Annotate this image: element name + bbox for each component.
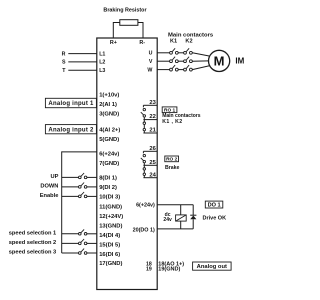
label box: Analog input 2 [45,125,96,134]
terminal 22 stub [143,119,157,121]
svg-text:24v: 24v [163,217,172,223]
svg-text:14(DI 4): 14(DI 4) [99,233,120,239]
svg-text:25: 25 [149,160,156,166]
relay contact 22-21 [143,120,145,122]
wire T to L3 [68,69,97,71]
svg-text:26: 26 [149,146,156,152]
svg-text:Analog out: Analog out [197,264,227,270]
svg-text:6(+24v): 6(+24v) [99,151,119,157]
svg-text:W: W [147,67,152,73]
svg-text:R-: R- [139,40,145,46]
svg-text:15(DI 5): 15(DI 5) [99,242,120,248]
svg-text:3(GND): 3(GND) [99,112,119,118]
svg-text:RO 2: RO 2 [166,157,178,163]
drive unit enclosure box [97,38,157,290]
wire relay coil branch top [180,205,182,215]
wire K2 pole 1 to motor [192,53,210,57]
svg-text:Braking Resistor: Braking Resistor [103,8,147,14]
diode D1 (flyback) [190,214,196,216]
wire K1 to K2 pole 2 [178,60,183,62]
svg-text:IM: IM [235,56,244,65]
svg-text:24: 24 [149,172,156,178]
svg-text:S: S [62,60,66,66]
wire diode branch bottom [192,219,194,229]
wire U to K1 pole [157,52,170,54]
contactor K2 pole 3 [184,68,187,71]
svg-text:19: 19 [146,266,152,272]
svg-text:L3: L3 [99,68,105,74]
wire K1 to K2 pole 3 [178,69,183,71]
svg-text:M: M [214,54,225,69]
wire braking resistor right lead to R- terminal [138,23,143,39]
wire +24V vertical rail [61,151,63,253]
relay contact 25-24 [143,165,145,167]
svg-text:R: R [62,51,66,57]
relay contact 26-25 [142,151,144,153]
wire DO1 return to terminal 20 [157,228,193,230]
svg-text:Enable: Enable [40,193,59,199]
svg-text:11(GND): 11(GND) [99,204,122,210]
wire K1 to K2 pole 1 [178,52,183,54]
label box: DO 1 [205,201,223,208]
wire W to K1 pole [157,69,170,71]
switch Enable to 10(DI 3) [62,195,79,197]
svg-text:19(GND): 19(GND) [158,266,180,272]
svg-text:Drive OK: Drive OK [203,216,227,222]
motor M (induction motor) [209,50,230,71]
label box: Analog out [193,262,232,270]
switch speed selection 3 to 16(DI 6) [62,252,79,254]
svg-text:Analog input 1: Analog input 1 [48,101,94,107]
svg-text:DO 1: DO 1 [208,203,221,209]
wire braking resistor left lead to R+ terminal [113,23,120,39]
contactor K2 pole 1 [184,51,187,54]
switch speed selection 1 to 14(DI 4) [62,233,79,235]
wire relay coil branch bottom [180,221,182,229]
svg-text:R+: R+ [110,40,117,46]
switch DOWN to 9(DI 2) [62,186,79,188]
wire diode branch top [192,205,194,216]
svg-text:10(DI 3): 10(DI 3) [99,194,120,200]
svg-text:22: 22 [149,114,155,120]
relay coil (dc 24v) [176,215,187,221]
svg-text:K1 , K2: K1 , K2 [162,119,182,125]
svg-text:8(DI 1): 8(DI 1) [99,175,117,181]
svg-text:12(+24V): 12(+24V) [99,214,123,220]
terminal 25 stub [143,164,157,166]
svg-text:2(AI 1): 2(AI 1) [99,102,117,108]
switch UP to 8(DI 1) [62,176,79,178]
contactor K1 pole 1 [170,51,173,54]
wire K2 pole 3 to motor [192,66,210,70]
svg-text:16(DI 6): 16(DI 6) [99,252,120,258]
svg-text:5(GND): 5(GND) [99,137,119,143]
wire +24V rail from terminal 6 [62,151,97,153]
svg-text:K1: K1 [170,39,177,45]
terminal 26 stub [143,150,157,152]
contactor K1 pole 3 [170,68,173,71]
terminal 23 stub [143,104,157,106]
svg-text:23: 23 [149,100,156,106]
wire R to L1 [68,53,97,55]
label box: RO 1 [162,107,177,113]
switch speed selection 2 to 15(DI 5) [62,242,79,244]
svg-text:V: V [149,59,153,65]
svg-text:Analog input 2: Analog input 2 [48,127,94,133]
contactor K2 pole 2 [184,60,187,63]
wire K2 pole 2 to motor [192,60,208,62]
wire +24v to DO1 load top [157,204,193,206]
terminal 24 stub [143,177,157,179]
svg-text:speed selection 3: speed selection 3 [9,249,56,255]
svg-text:Brake: Brake [165,165,180,171]
svg-text:K2: K2 [185,39,192,45]
svg-text:4(AI 2+): 4(AI 2+) [99,128,120,134]
svg-text:13(GND): 13(GND) [99,223,122,229]
svg-text:speed selection 2: speed selection 2 [9,240,56,246]
svg-text:17(GND): 17(GND) [99,261,122,267]
svg-text:7(GND): 7(GND) [99,161,119,167]
svg-text:speed selection 1: speed selection 1 [9,230,56,236]
svg-text:L1: L1 [99,51,105,57]
label box: Analog input 1 [45,98,96,107]
wire S to L2 [68,61,97,63]
svg-text:1(+10v): 1(+10v) [99,93,119,99]
svg-text:20(DO 1): 20(DO 1) [133,227,155,233]
resistor: braking resistor body [120,20,138,26]
svg-text:DOWN: DOWN [40,183,58,189]
svg-text:UP: UP [50,174,58,180]
label box: RO 2 [165,156,179,162]
svg-text:9(DI 2): 9(DI 2) [99,185,117,191]
contactor K1 pole 2 [170,60,173,63]
svg-text:21: 21 [149,128,156,134]
svg-text:6(+24v): 6(+24v) [136,202,155,208]
svg-text:U: U [149,51,153,57]
terminal 21 stub [143,132,157,134]
relay contact 23-22 [142,105,144,107]
svg-text:L2: L2 [99,60,105,66]
wire V to K1 pole [157,60,170,62]
